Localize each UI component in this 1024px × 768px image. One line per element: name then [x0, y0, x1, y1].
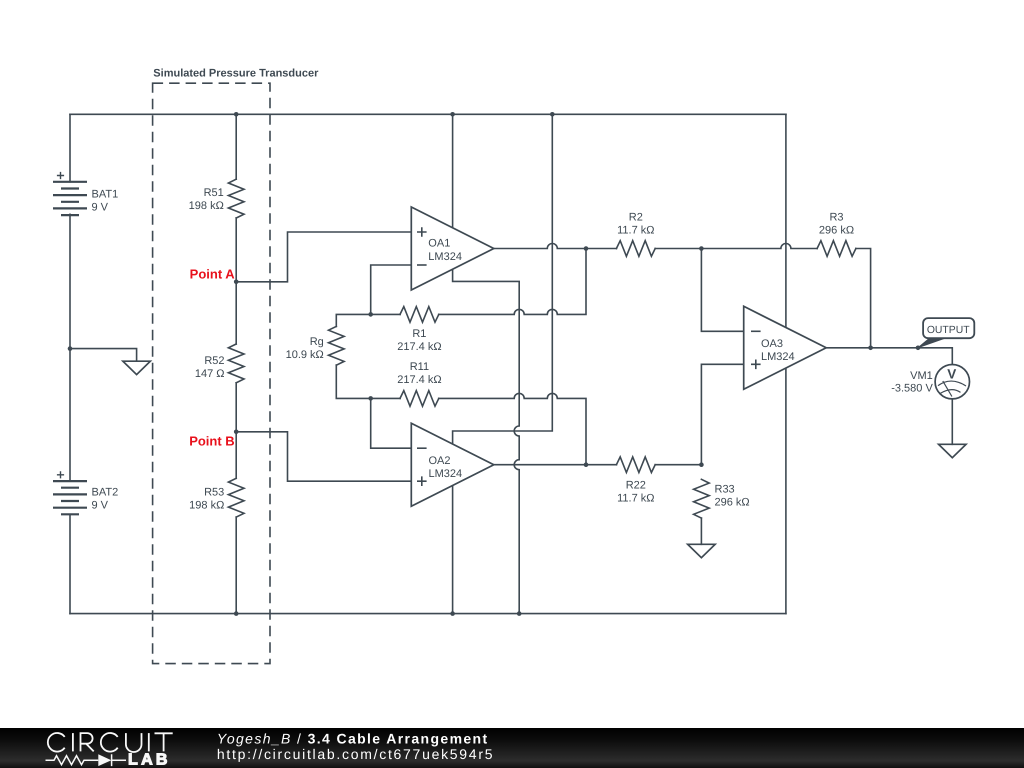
- op-amp OA3: [744, 306, 827, 389]
- svg-text:OUTPUT: OUTPUT: [927, 325, 970, 336]
- label OA3 LM324: [761, 338, 795, 363]
- ground (battery midpoint): [123, 361, 150, 374]
- junction: OA1 output / R1 feedback: [584, 246, 589, 251]
- ground (below R33): [688, 544, 715, 557]
- svg-text:9 V: 9 V: [92, 201, 109, 213]
- label Rg value: [286, 336, 324, 361]
- svg-text:198 kΩ: 198 kΩ: [189, 500, 224, 512]
- wire: ground stub from battery midpoint: [70, 349, 137, 362]
- wire: OA2 V+ pin to top rail: [453, 114, 553, 444]
- label R3 value: [819, 212, 854, 237]
- svg-text:-3.580 V: -3.580 V: [891, 383, 933, 395]
- resistor R2: [616, 241, 655, 257]
- svg-text:147 Ω: 147 Ω: [195, 368, 225, 380]
- wire: OA3 V+ pin to top rail: [785, 114, 787, 327]
- label VM1 reading: [891, 370, 933, 394]
- svg-text:R11: R11: [410, 361, 429, 373]
- svg-text:LAB: LAB: [128, 752, 171, 768]
- footer url: [217, 746, 494, 762]
- wire: R51 to Point A: [235, 218, 237, 282]
- wire: R22 right to R33 node: [655, 464, 701, 466]
- svg-text:R33: R33: [715, 484, 735, 496]
- wire: node X1 to Rg top: [336, 314, 370, 326]
- resistor R1: [400, 307, 439, 323]
- wire: R2/R3 node down to OA3 inverting input: [701, 249, 743, 332]
- resistor R53: [228, 478, 244, 517]
- resistor R33: [694, 479, 710, 518]
- junction: bottom rail / OA2 V-: [450, 611, 455, 616]
- dashed enclosure: Simulated Pressure Transducer box: [153, 83, 270, 663]
- wire: Point A to R52: [235, 282, 237, 344]
- junction: R22 / R33 / OA3+: [699, 462, 704, 467]
- junction: top rail / R51: [234, 112, 239, 117]
- node Point A label: [190, 267, 236, 282]
- wire: R1 right to OA1 output node (hops over verticals): [439, 249, 586, 315]
- svg-text:9 V: 9 V: [92, 500, 109, 512]
- wire: OA2 V- pin to negative rail: [452, 486, 454, 614]
- node OUTPUT flag: [918, 318, 974, 348]
- wire: OA3 output to voltmeter: [826, 348, 952, 365]
- wire: OA1 V- pin to negative rail (hops left at crossings): [453, 269, 520, 613]
- battery BAT1: [53, 172, 87, 215]
- footer title Yogesh_B / 3.4 Cable Arrangement: [217, 731, 489, 747]
- op-amp OA2: [411, 423, 494, 506]
- wire: Point B to R53: [235, 432, 237, 479]
- wire: OA3 V- pin to negative rail: [785, 368, 787, 614]
- svg-text:296 kΩ: 296 kΩ: [819, 225, 854, 237]
- op-amp OA3 input polarity marks: [751, 331, 761, 369]
- label OA2 LM324: [429, 455, 463, 480]
- junction: R2 / R3 / OA3-: [699, 246, 704, 251]
- wire: -9V bottom rail: [70, 613, 786, 615]
- wire: +9V top rail: [70, 113, 786, 115]
- battery BAT2: [53, 471, 87, 514]
- resistor R22: [616, 457, 655, 473]
- wire: R11 right to OA2 output node (hops over verticals): [439, 393, 586, 464]
- node A junction: [234, 280, 239, 285]
- label: Simulated Pressure Transducer: [153, 68, 319, 80]
- wire: R3 right feedback corner to OA3 output: [856, 249, 871, 348]
- svg-text:Simulated Pressure Transducer: Simulated Pressure Transducer: [153, 68, 319, 80]
- svg-text:Rg: Rg: [310, 336, 324, 348]
- wire: node X2 to R11 left: [371, 397, 400, 399]
- svg-text:OA3: OA3: [761, 338, 783, 350]
- voltmeter VM1: [935, 364, 969, 398]
- wire: OA3 non-inverting input to R22/R33 node: [701, 364, 743, 464]
- wire: Point B to OA2 non-inverting input: [236, 432, 411, 481]
- svg-text:BAT1: BAT1: [92, 188, 119, 200]
- svg-text:11.7 kΩ: 11.7 kΩ: [617, 225, 654, 237]
- label R22 value: [617, 479, 654, 504]
- label R33 value: [715, 484, 750, 509]
- label R51 value: [189, 187, 224, 212]
- junction: bottom rail / R53: [234, 611, 239, 616]
- junction: battery midpoint / ground: [68, 346, 73, 351]
- junction: OA2 output / R11 feedback: [584, 462, 589, 467]
- label R52 value: [195, 355, 225, 380]
- label OA1 LM324: [428, 238, 462, 263]
- wire: OA1 inverting input to node X1: [371, 265, 412, 314]
- footer bar background: [0, 728, 1024, 768]
- label R11 value: [397, 361, 441, 386]
- node B junction: [234, 430, 239, 435]
- svg-text:Point B: Point B: [189, 434, 235, 449]
- op-amp OA2 input polarity marks: [417, 448, 427, 486]
- svg-text:198 kΩ: 198 kΩ: [189, 200, 224, 212]
- svg-text:VM1: VM1: [910, 370, 933, 382]
- junction: top rail / OA2 V+: [550, 112, 555, 117]
- label BAT2 value: [92, 487, 119, 512]
- wire: Rg bottom to node X2: [336, 365, 370, 398]
- junction: top rail / OA1 V+: [450, 112, 455, 117]
- junction: X1 (Rg/R1/OA1-): [368, 312, 373, 317]
- label R2 value: [617, 212, 654, 237]
- wire: OA2 output to R22: [494, 464, 617, 466]
- resistor R51: [228, 179, 244, 218]
- wire: node X1 to R1 left: [371, 313, 400, 315]
- svg-text:Yogesh_B / 3.4 Cable Arrangeme: Yogesh_B / 3.4 Cable Arrangement: [217, 731, 489, 747]
- svg-text:11.7 kΩ: 11.7 kΩ: [617, 492, 654, 504]
- junction: X2 (Rg/R11/OA2-): [368, 396, 373, 401]
- svg-text:R52: R52: [204, 355, 224, 367]
- wire: node X2 to OA2 inverting input: [371, 398, 412, 448]
- svg-text:217.4 kΩ: 217.4 kΩ: [397, 374, 441, 386]
- svg-text:Point A: Point A: [190, 267, 236, 282]
- junction: OA3 output / R3 feedback: [868, 346, 873, 351]
- svg-text:V: V: [947, 367, 956, 382]
- wire: left rail between batteries: [69, 214, 71, 481]
- svg-text:217.4 kΩ: 217.4 kΩ: [397, 341, 441, 353]
- svg-text:R51: R51: [204, 187, 224, 199]
- svg-text:R22: R22: [626, 479, 646, 491]
- svg-text:LM324: LM324: [428, 251, 462, 263]
- wire: R2 right through node to R3 (hop over OA3 supply drop): [655, 244, 817, 249]
- wire: R52 to Point B: [235, 383, 237, 432]
- wire: R33 bottom to ground: [700, 518, 702, 544]
- CircuitLab logo LAB wordmark: [128, 752, 171, 768]
- junction: OUTPUT flag: [916, 346, 921, 351]
- wire: left rail BAT2 bottom segment: [69, 514, 71, 613]
- node Point B label: [189, 434, 235, 449]
- svg-text:LM324: LM324: [761, 351, 795, 363]
- svg-text:LM324: LM324: [429, 468, 463, 480]
- label R53 value: [189, 487, 224, 512]
- CircuitLab logo CIRCUIT wordmark: [48, 733, 173, 752]
- op-amp OA1 input polarity marks: [417, 227, 427, 265]
- ground (below VM1): [939, 444, 966, 457]
- label R1 value: [397, 328, 441, 353]
- op-amp OA1: [411, 207, 494, 290]
- svg-text:R2: R2: [629, 212, 643, 224]
- resistor R3: [817, 241, 856, 257]
- wire: OA1 output to R2 (hop over OA2 supply drop): [494, 244, 617, 249]
- wire: OA1 V+ pin to top rail: [452, 114, 454, 227]
- svg-text:R1: R1: [412, 328, 426, 340]
- svg-text:http://circuitlab.com/ct677uek: http://circuitlab.com/ct677uek594r5: [217, 746, 494, 762]
- wire: R53 to bottom rail: [235, 517, 237, 614]
- wire: left rail BAT1 top segment: [69, 114, 71, 181]
- label BAT1 value: [92, 188, 119, 213]
- svg-text:BAT2: BAT2: [92, 487, 119, 499]
- resistor R52: [228, 344, 244, 383]
- resistor R11: [400, 391, 439, 407]
- wire: transducer chain top rail to R51: [235, 114, 237, 179]
- resistor Rg: [329, 326, 345, 365]
- svg-text:R53: R53: [204, 487, 224, 499]
- svg-text:R3: R3: [829, 212, 843, 224]
- CircuitLab logo resistor-diode strip: [46, 754, 127, 766]
- svg-text:OA2: OA2: [429, 455, 451, 467]
- svg-text:10.9 kΩ: 10.9 kΩ: [286, 349, 324, 361]
- wire: Point A to OA1 non-inverting input: [236, 232, 411, 282]
- svg-text:296 kΩ: 296 kΩ: [715, 497, 750, 509]
- svg-text:OA1: OA1: [428, 238, 450, 250]
- junction: bottom rail / OA1 V-: [517, 611, 522, 616]
- wire: voltmeter to ground: [951, 399, 953, 444]
